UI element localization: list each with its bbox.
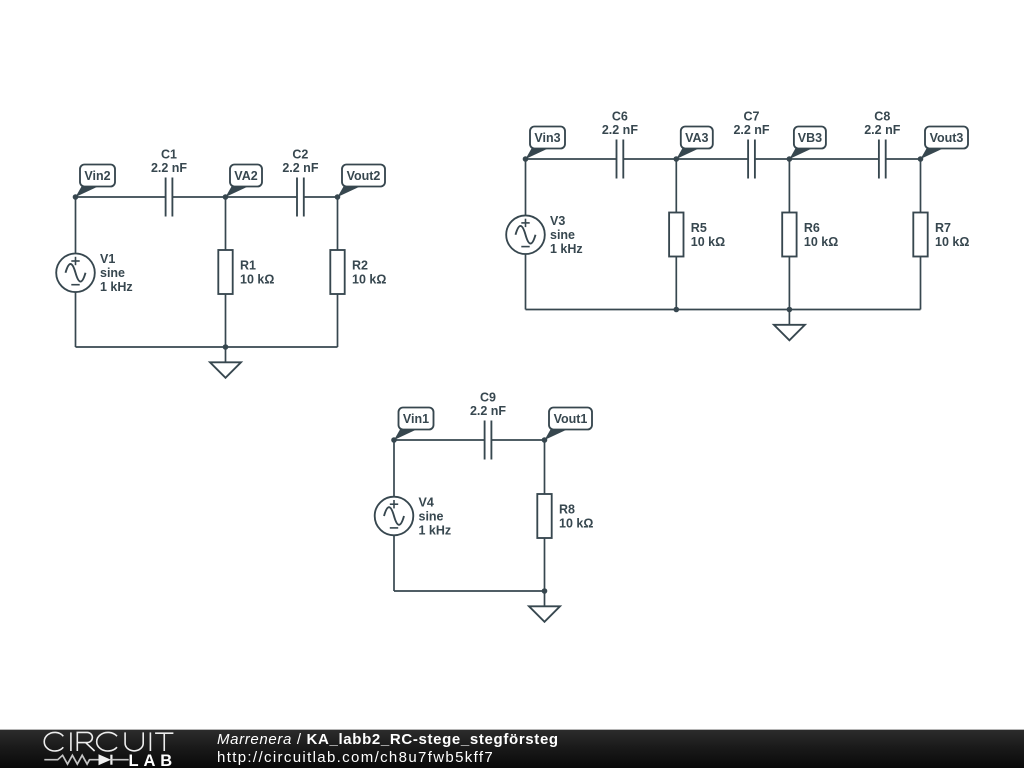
svg-text:C9: C9: [480, 391, 496, 405]
svg-text:2.2 nF: 2.2 nF: [733, 123, 769, 137]
svg-text:sine: sine: [419, 509, 444, 523]
svg-text:1 kHz: 1 kHz: [550, 242, 583, 256]
svg-text:C6: C6: [612, 110, 628, 124]
svg-text:R1: R1: [240, 259, 256, 273]
svg-text:2.2 nF: 2.2 nF: [602, 123, 638, 137]
svg-text:10 kΩ: 10 kΩ: [804, 235, 838, 249]
svg-text:2.2 nF: 2.2 nF: [470, 404, 506, 418]
svg-text:10 kΩ: 10 kΩ: [559, 517, 593, 531]
svg-text:10 kΩ: 10 kΩ: [935, 235, 969, 249]
svg-text:VB3: VB3: [798, 131, 822, 145]
svg-text:Vin3: Vin3: [534, 131, 560, 145]
svg-text:2.2 nF: 2.2 nF: [282, 161, 318, 175]
svg-text:VA2: VA2: [234, 169, 257, 183]
svg-text:C2: C2: [292, 148, 308, 162]
svg-text:VA3: VA3: [685, 131, 708, 145]
svg-text:1 kHz: 1 kHz: [419, 523, 452, 537]
svg-text:10 kΩ: 10 kΩ: [240, 273, 274, 287]
svg-text:V3: V3: [550, 214, 565, 228]
svg-text:C7: C7: [744, 110, 760, 124]
svg-text:R8: R8: [559, 503, 575, 517]
svg-text:Vout2: Vout2: [347, 169, 381, 183]
svg-text:R6: R6: [804, 221, 820, 235]
svg-text:2.2 nF: 2.2 nF: [864, 123, 900, 137]
svg-text:C8: C8: [874, 110, 890, 124]
svg-text:R2: R2: [352, 259, 368, 273]
svg-text:R5: R5: [691, 221, 707, 235]
svg-text:10 kΩ: 10 kΩ: [691, 235, 725, 249]
svg-text:Vin1: Vin1: [403, 412, 429, 426]
svg-text:Vout1: Vout1: [554, 412, 588, 426]
svg-text:V4: V4: [419, 495, 434, 509]
svg-text:sine: sine: [550, 228, 575, 242]
svg-text:Vout3: Vout3: [930, 131, 964, 145]
svg-text:R7: R7: [935, 221, 951, 235]
svg-text:10 kΩ: 10 kΩ: [352, 273, 386, 287]
